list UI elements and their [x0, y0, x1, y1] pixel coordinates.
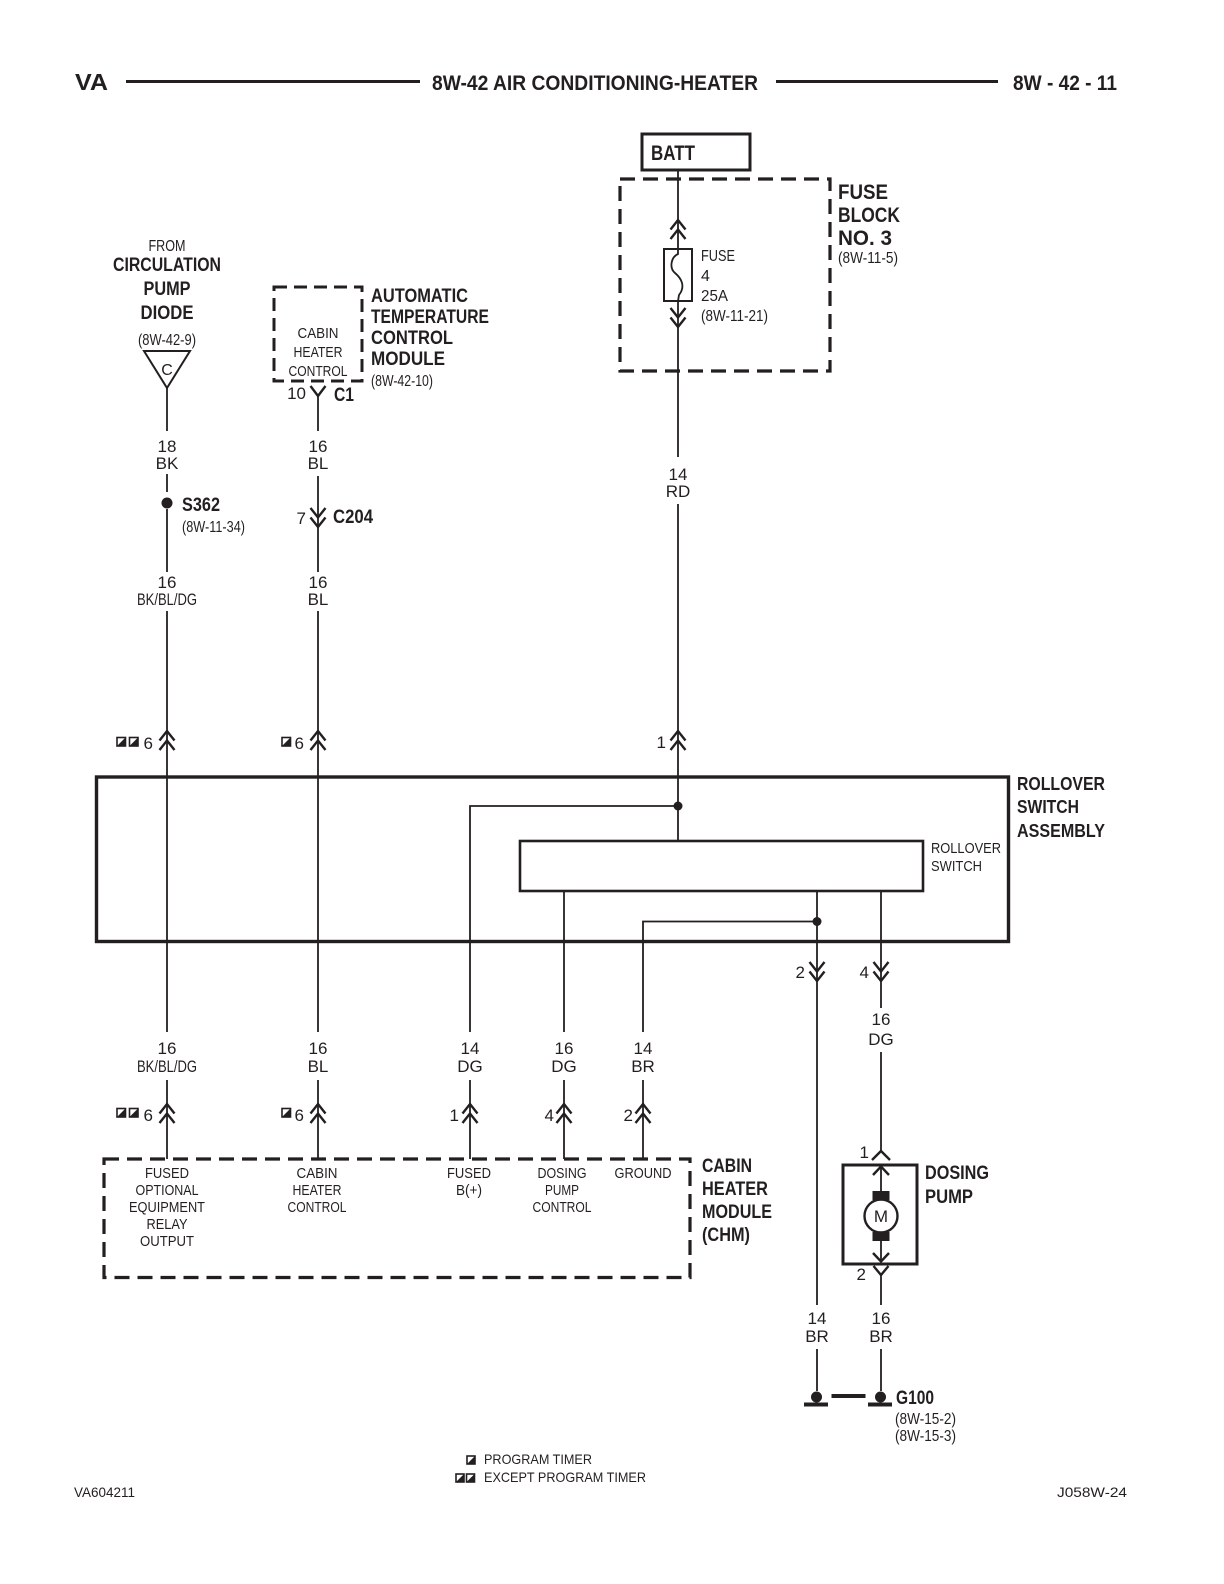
- rollover switch (inner box): [520, 840, 1001, 891]
- svg-text:FROM: FROM: [149, 238, 186, 255]
- ground link bar: [832, 1394, 866, 1398]
- svg-text:16: 16: [872, 1010, 891, 1029]
- wire 16 BK/BL/DG: [166, 509, 168, 572]
- svg-text:RELAY: RELAY: [147, 1216, 188, 1233]
- svg-text:6: 6: [295, 1106, 304, 1125]
- label: from circulation pump diode: [113, 238, 221, 349]
- wire segments into CHM: [166, 1080, 168, 1159]
- svg-text:VA604211: VA604211: [74, 1484, 135, 1500]
- wire: [166, 474, 168, 492]
- CHM pin label: fused B(+): [447, 1165, 491, 1199]
- svg-text:MODULE: MODULE: [702, 1202, 772, 1223]
- svg-text:M: M: [874, 1207, 888, 1226]
- off-page connector C: [144, 351, 190, 388]
- svg-text:(8W-11-34): (8W-11-34): [182, 519, 245, 536]
- svg-text:PROGRAM TIMER: PROGRAM TIMER: [484, 1451, 592, 1467]
- rollover switch assembly box: [97, 774, 1106, 942]
- wire label 16 BK/BL/DG: [137, 573, 197, 609]
- svg-text:(CHM): (CHM): [702, 1225, 750, 1246]
- svg-text:DOSING: DOSING: [538, 1165, 587, 1182]
- svg-text:16: 16: [555, 1039, 574, 1058]
- CHM connector 6 (except program timer flags): [117, 1104, 175, 1125]
- wire branch to CHM ground: [643, 922, 817, 1033]
- connector C1 pin 10: [287, 384, 354, 431]
- svg-text:FUSED: FUSED: [145, 1165, 189, 1182]
- svg-text:FUSE: FUSE: [701, 248, 735, 265]
- svg-text:S362: S362: [182, 495, 220, 516]
- in-line connector 6 (program timer flag): [282, 731, 326, 753]
- connector pin 1 (rollover switch assembly): [657, 731, 686, 752]
- svg-text:HEATER: HEATER: [294, 344, 343, 361]
- svg-text:DG: DG: [457, 1057, 483, 1076]
- svg-text:1: 1: [860, 1143, 869, 1162]
- wire label 14 DG: [457, 1039, 483, 1076]
- wire label 16 BL: [308, 573, 329, 609]
- svg-text:6: 6: [144, 1106, 153, 1125]
- svg-text:CONTROL: CONTROL: [288, 1199, 347, 1216]
- svg-text:J058W-24: J058W-24: [1057, 1484, 1127, 1500]
- legend: program timer flag: [467, 1451, 592, 1467]
- svg-text:ASSEMBLY: ASSEMBLY: [1017, 821, 1105, 841]
- wire from BATT: [677, 170, 679, 249]
- svg-text:TEMPERATURE: TEMPERATURE: [371, 307, 489, 328]
- wire label 16 BL: [308, 437, 329, 473]
- in-line connector 6 (except program timer flags): [117, 731, 175, 753]
- connector chevron (fuse block entry): [671, 220, 686, 239]
- wire: switch pin 4: [880, 891, 882, 1008]
- svg-text:4: 4: [701, 268, 710, 285]
- svg-text:BR: BR: [869, 1327, 893, 1346]
- wire into rollover switch: [677, 806, 679, 841]
- wire label 16 BR: [869, 1309, 893, 1346]
- svg-text:6: 6: [144, 734, 153, 753]
- svg-text:EQUIPMENT: EQUIPMENT: [129, 1199, 205, 1216]
- ground G100 (left): [804, 1392, 828, 1407]
- wire to ground: [880, 1349, 882, 1391]
- svg-text:(8W-11-21): (8W-11-21): [701, 308, 768, 325]
- wire branch to fused B(+): [470, 806, 678, 1032]
- connector pin 2 (assembly exit): [796, 962, 825, 982]
- svg-text:(8W-42-9): (8W-42-9): [138, 332, 196, 349]
- svg-text:C1: C1: [334, 385, 354, 406]
- wire label 16 BK/BL/DG: [137, 1039, 197, 1076]
- svg-text:BL: BL: [308, 1057, 329, 1076]
- dosing pump connector pin 1: [860, 1143, 890, 1162]
- svg-text:PUMP: PUMP: [925, 1187, 973, 1208]
- ground G100 (right): [868, 1388, 956, 1445]
- svg-text:C204: C204: [333, 507, 373, 528]
- wire label 16 DG: [551, 1039, 577, 1076]
- wire label 18 BK: [156, 437, 179, 473]
- svg-text:RD: RD: [666, 482, 691, 501]
- svg-text:BATT: BATT: [651, 142, 695, 165]
- wire to ground: [816, 1349, 818, 1391]
- module: automatic temperature control (dashed box): [274, 286, 489, 390]
- svg-text:SWITCH: SWITCH: [931, 858, 982, 875]
- svg-text:14: 14: [461, 1039, 480, 1058]
- svg-text:BR: BR: [805, 1327, 829, 1346]
- wire label 14 BR: [805, 1309, 829, 1346]
- svg-text:ROLLOVER: ROLLOVER: [931, 840, 1001, 857]
- svg-text:BLOCK: BLOCK: [838, 204, 900, 227]
- svg-text:7: 7: [297, 509, 306, 528]
- wire to dosing pump: [880, 1052, 882, 1151]
- svg-text:HEATER: HEATER: [702, 1179, 768, 1200]
- svg-text:B(+): B(+): [456, 1182, 482, 1199]
- svg-text:CABIN: CABIN: [702, 1156, 752, 1177]
- svg-text:BK/BL/DG: BK/BL/DG: [137, 590, 197, 609]
- CHM connector pin 4: [545, 1104, 572, 1125]
- svg-text:PUMP: PUMP: [144, 279, 191, 300]
- svg-text:6: 6: [295, 734, 304, 753]
- svg-text:10: 10: [287, 384, 306, 403]
- svg-text:CABIN: CABIN: [297, 1165, 338, 1182]
- wire: [317, 611, 319, 1032]
- wire: switch output pin 2: [816, 891, 818, 1305]
- svg-text:BK: BK: [156, 454, 179, 473]
- svg-text:DG: DG: [868, 1030, 894, 1049]
- svg-text:2: 2: [624, 1106, 633, 1125]
- svg-text:BK/BL/DG: BK/BL/DG: [137, 1057, 197, 1076]
- svg-text:BR: BR: [631, 1057, 655, 1076]
- svg-text:C: C: [161, 362, 173, 379]
- svg-text:14: 14: [808, 1309, 827, 1328]
- svg-text:(8W-42-10): (8W-42-10): [371, 373, 433, 390]
- wire label 16 BL: [308, 1039, 329, 1076]
- svg-text:16: 16: [872, 1309, 891, 1328]
- svg-text:DIODE: DIODE: [141, 303, 194, 324]
- wire 16 BL: [317, 476, 319, 572]
- svg-text:OUTPUT: OUTPUT: [140, 1233, 194, 1250]
- svg-text:BL: BL: [308, 454, 329, 473]
- svg-text:CONTROL: CONTROL: [289, 363, 348, 380]
- svg-text:(8W-11-5): (8W-11-5): [838, 250, 898, 267]
- CHM connector pin 2: [624, 1104, 651, 1125]
- svg-text:CABIN: CABIN: [298, 325, 339, 342]
- dosing pump connector pin 2: [857, 1265, 889, 1305]
- wire 18 BK: [166, 388, 168, 431]
- footer plate numbers: [74, 1484, 1127, 1500]
- wire: switch to dosing pump control: [563, 891, 565, 1032]
- svg-text:(8W-15-3): (8W-15-3): [895, 1428, 956, 1445]
- svg-text:MODULE: MODULE: [371, 349, 445, 370]
- svg-text:G100: G100: [896, 1388, 934, 1409]
- svg-text:FUSED: FUSED: [447, 1165, 491, 1182]
- wire: [677, 504, 679, 806]
- svg-text:NO. 3: NO. 3: [838, 227, 892, 250]
- svg-text:DOSING: DOSING: [925, 1163, 989, 1184]
- svg-text:1: 1: [450, 1106, 459, 1125]
- battery feed BATT: [642, 134, 750, 170]
- CHM pin label: dosing pump control: [533, 1165, 592, 1216]
- svg-text:4: 4: [860, 963, 869, 982]
- legend: except program timer flags: [456, 1469, 646, 1485]
- svg-text:EXCEPT PROGRAM TIMER: EXCEPT PROGRAM TIMER: [484, 1469, 646, 1485]
- connector pin 4 (assembly exit): [860, 962, 889, 982]
- fuse 4 25A: [664, 248, 768, 325]
- wire: [166, 611, 168, 1032]
- junction node on pin 2 wire: [813, 917, 822, 926]
- dosing pump label: [925, 1163, 989, 1208]
- CHM connector pin 1: [450, 1104, 478, 1125]
- svg-text:25A: 25A: [701, 288, 728, 305]
- svg-text:8W-42 AIR CONDITIONING-HEATER: 8W-42 AIR CONDITIONING-HEATER: [432, 72, 758, 95]
- connector C204 pin 7: [297, 507, 374, 528]
- CHM pin label: fused optional equipment relay output: [129, 1165, 205, 1250]
- svg-text:8W - 42 - 11: 8W - 42 - 11: [1013, 72, 1117, 95]
- CHM connector 6 (program timer flag): [282, 1104, 326, 1125]
- svg-text:ROLLOVER: ROLLOVER: [1017, 774, 1105, 794]
- svg-text:2: 2: [796, 963, 805, 982]
- svg-text:2: 2: [857, 1265, 866, 1284]
- svg-text:HEATER: HEATER: [293, 1182, 342, 1199]
- motor M (dosing pump): [865, 1166, 898, 1262]
- svg-text:1: 1: [657, 733, 666, 752]
- connector chevron (fuse block exit): [671, 308, 686, 327]
- svg-text:(8W-15-2): (8W-15-2): [895, 1411, 956, 1428]
- svg-text:GROUND: GROUND: [615, 1165, 672, 1182]
- wire label 14 BR: [631, 1039, 655, 1076]
- wire label 16 DG: [868, 1010, 894, 1049]
- splice S362: [162, 495, 246, 536]
- svg-text:SWITCH: SWITCH: [1017, 797, 1079, 817]
- CHM pin label: cabin heater control: [288, 1165, 347, 1216]
- svg-text:FUSE: FUSE: [838, 181, 888, 204]
- wire label 14 RD: [666, 465, 691, 501]
- svg-text:4: 4: [545, 1106, 554, 1125]
- svg-text:CONTROL: CONTROL: [533, 1199, 592, 1216]
- svg-text:16: 16: [158, 1039, 177, 1058]
- dosing pump box: [843, 1165, 917, 1264]
- svg-text:CONTROL: CONTROL: [371, 328, 453, 349]
- page header: [75, 69, 1117, 95]
- cabin heater module CHM (dashed box): [104, 1156, 772, 1278]
- svg-text:VA: VA: [75, 69, 108, 95]
- svg-text:BL: BL: [308, 590, 329, 609]
- junction node on battery feed: [674, 802, 683, 811]
- svg-text:AUTOMATIC: AUTOMATIC: [371, 286, 468, 307]
- svg-text:PUMP: PUMP: [545, 1182, 579, 1199]
- fuse block no. 3 (dashed box): [620, 179, 900, 371]
- svg-text:CIRCULATION: CIRCULATION: [113, 255, 221, 276]
- svg-text:DG: DG: [551, 1057, 577, 1076]
- svg-text:16: 16: [309, 1039, 328, 1058]
- wire 14 RD: [677, 301, 679, 457]
- svg-text:14: 14: [634, 1039, 653, 1058]
- svg-text:OPTIONAL: OPTIONAL: [136, 1182, 199, 1199]
